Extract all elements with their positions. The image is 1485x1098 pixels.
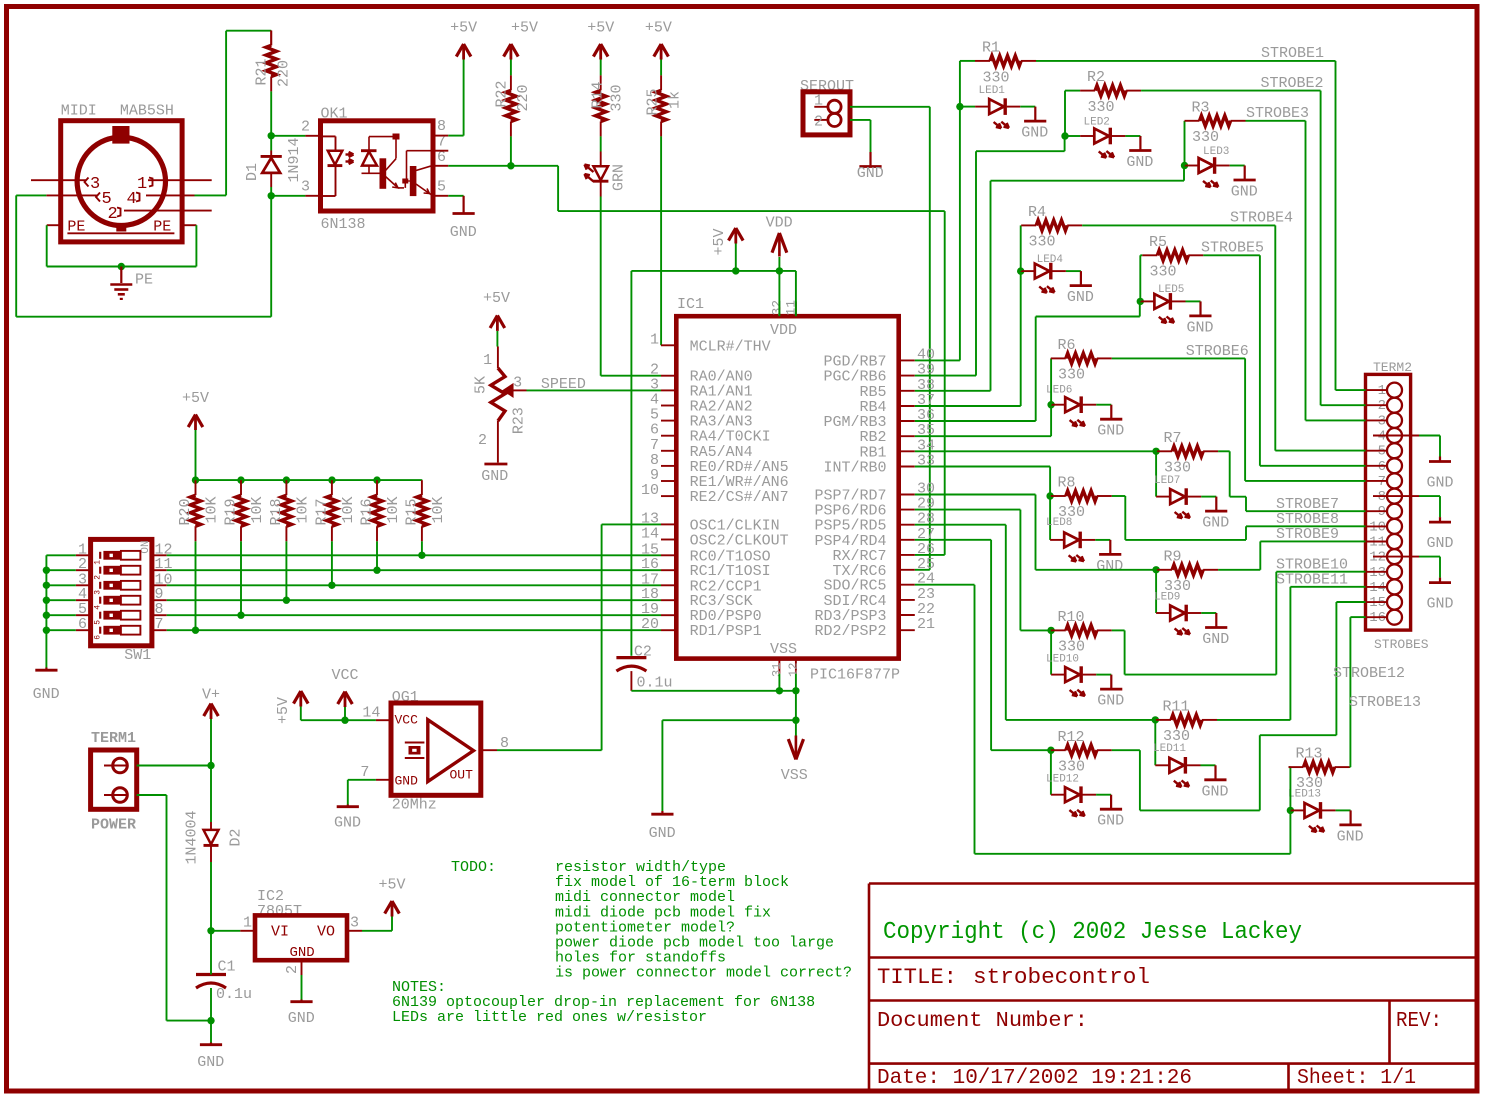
svg-text:330: 330 — [1029, 234, 1056, 251]
svg-text:INT/RB0: INT/RB0 — [823, 460, 886, 477]
svg-text:1: 1 — [650, 331, 659, 348]
svg-text:1: 1 — [137, 175, 147, 194]
svg-text:SW1: SW1 — [124, 647, 151, 664]
svg-text:GND: GND — [857, 165, 884, 182]
svg-text:1N914: 1N914 — [286, 137, 303, 182]
svg-text:3: 3 — [90, 175, 100, 194]
svg-text:MAB5SH: MAB5SH — [120, 103, 174, 120]
svg-text:R23: R23 — [511, 407, 528, 434]
svg-text:ON: ON — [140, 540, 152, 553]
svg-text:330: 330 — [1192, 129, 1219, 146]
svg-text:2: 2 — [478, 432, 487, 449]
svg-text:+5V: +5V — [450, 20, 477, 37]
svg-text:21: 21 — [917, 616, 935, 633]
svg-text:LED3: LED3 — [1203, 146, 1229, 158]
svg-text:R10: R10 — [1058, 609, 1085, 626]
svg-text:330: 330 — [983, 70, 1010, 87]
svg-text:LED6: LED6 — [1046, 385, 1072, 397]
svg-text:OSC2/CLKOUT: OSC2/CLKOUT — [690, 533, 789, 550]
svg-text:330: 330 — [1088, 99, 1115, 116]
svg-text:13: 13 — [1369, 565, 1386, 581]
svg-text:PIC16F877P: PIC16F877P — [810, 667, 900, 684]
svg-text:VDD: VDD — [770, 322, 797, 339]
svg-text:R8: R8 — [1058, 475, 1076, 492]
svg-text:10K: 10K — [340, 496, 357, 523]
svg-text:1k: 1k — [667, 91, 684, 109]
svg-text:330: 330 — [1163, 728, 1190, 745]
svg-text:8: 8 — [1378, 489, 1386, 505]
svg-text:Date: 10/17/2002 19:21:26: Date: 10/17/2002 19:21:26 — [877, 1067, 1192, 1090]
svg-text:LED7: LED7 — [1154, 475, 1180, 487]
svg-text:VO: VO — [317, 924, 335, 941]
svg-text:RD1/PSP1: RD1/PSP1 — [690, 623, 762, 640]
svg-text:R2: R2 — [1087, 69, 1105, 86]
svg-text:VCC: VCC — [331, 667, 358, 684]
svg-text:STROBE2: STROBE2 — [1261, 75, 1324, 92]
svg-text:R1: R1 — [982, 40, 1000, 57]
svg-text:is power connector model corre: is power connector model correct? — [555, 965, 852, 982]
svg-text:330: 330 — [1150, 264, 1177, 281]
svg-text:1: 1 — [243, 915, 252, 932]
svg-text:MIDI: MIDI — [61, 103, 97, 120]
svg-text:MCLR#/THV: MCLR#/THV — [690, 338, 771, 355]
svg-text:TERM1: TERM1 — [91, 730, 136, 747]
svg-text:STROBE12: STROBE12 — [1333, 665, 1405, 682]
svg-text:+5V: +5V — [275, 697, 292, 724]
svg-text:IC1: IC1 — [677, 296, 704, 313]
svg-text:R13: R13 — [1296, 746, 1323, 763]
svg-text:3: 3 — [513, 375, 522, 392]
svg-text:R9: R9 — [1164, 549, 1182, 566]
svg-text:2: 2 — [814, 114, 823, 131]
svg-text:R7: R7 — [1164, 430, 1182, 447]
svg-text:3: 3 — [94, 590, 103, 595]
svg-text:GND: GND — [33, 686, 60, 703]
svg-text:R19: R19 — [223, 498, 240, 525]
svg-text:RE2/CS#/AN7: RE2/CS#/AN7 — [690, 489, 789, 506]
svg-text:STROBE5: STROBE5 — [1201, 240, 1264, 257]
svg-text:330: 330 — [1296, 775, 1323, 792]
svg-text:220: 220 — [276, 60, 293, 87]
svg-text:STROBE11: STROBE11 — [1276, 572, 1348, 589]
svg-text:STROBE13: STROBE13 — [1349, 694, 1421, 711]
svg-text:GND: GND — [1426, 475, 1453, 492]
svg-text:VDD: VDD — [766, 215, 793, 232]
svg-text:REV:: REV: — [1396, 1010, 1442, 1033]
svg-text:R3: R3 — [1192, 100, 1210, 117]
svg-text:D2: D2 — [228, 828, 245, 846]
svg-text:+5V: +5V — [645, 20, 672, 37]
svg-text:10K: 10K — [249, 496, 266, 523]
svg-text:C2: C2 — [634, 644, 652, 661]
svg-text:3: 3 — [350, 915, 359, 932]
svg-text:0.1u: 0.1u — [216, 986, 252, 1003]
svg-text:16: 16 — [1369, 610, 1386, 626]
svg-text:R20: R20 — [177, 498, 194, 525]
svg-text:R18: R18 — [268, 498, 285, 525]
svg-text:10: 10 — [641, 482, 659, 499]
svg-text:+5V: +5V — [587, 20, 614, 37]
svg-text:5K: 5K — [472, 376, 489, 394]
svg-text:5: 5 — [437, 179, 446, 196]
svg-text:2: 2 — [284, 965, 301, 974]
svg-text:GND: GND — [1097, 423, 1124, 440]
svg-text:6N138: 6N138 — [321, 216, 366, 233]
svg-text:14: 14 — [362, 705, 380, 722]
svg-text:R25: R25 — [645, 88, 662, 115]
svg-text:GND: GND — [1126, 154, 1153, 171]
svg-text:7: 7 — [360, 764, 369, 781]
svg-text:6: 6 — [78, 616, 87, 633]
svg-text:R11: R11 — [1163, 699, 1190, 716]
svg-text:VCC: VCC — [395, 713, 419, 728]
svg-text:1: 1 — [814, 93, 823, 110]
svg-text:GND: GND — [1096, 558, 1123, 575]
svg-text:LED5: LED5 — [1158, 284, 1184, 296]
svg-text:10K: 10K — [430, 496, 447, 523]
svg-text:330: 330 — [1058, 367, 1085, 384]
svg-text:Copyright (c) 2002 Jesse Lacke: Copyright (c) 2002 Jesse Lackey — [883, 919, 1302, 946]
svg-text:R16: R16 — [359, 498, 376, 525]
svg-text:RD2/PSP2: RD2/PSP2 — [814, 623, 886, 640]
svg-text:+5V: +5V — [511, 20, 538, 37]
svg-text:GRN: GRN — [611, 164, 628, 191]
svg-text:LED1: LED1 — [979, 85, 1006, 97]
svg-text:330: 330 — [1058, 504, 1085, 521]
svg-text:PE: PE — [135, 272, 153, 289]
svg-text:GND: GND — [395, 774, 419, 789]
svg-text:LED2: LED2 — [1084, 117, 1110, 129]
svg-text:LED4: LED4 — [1037, 254, 1064, 266]
svg-text:GND: GND — [1021, 125, 1048, 142]
svg-text:R5: R5 — [1149, 234, 1167, 251]
svg-text:R4: R4 — [1028, 204, 1046, 221]
svg-text:4: 4 — [94, 605, 103, 610]
svg-text:3: 3 — [1378, 413, 1386, 429]
svg-text:5: 5 — [1378, 444, 1386, 460]
svg-text:32: 32 — [770, 300, 785, 316]
svg-text:POWER: POWER — [91, 817, 136, 834]
svg-text:GND: GND — [1097, 813, 1124, 830]
svg-text:12: 12 — [1369, 550, 1386, 566]
svg-text:D1: D1 — [244, 163, 261, 181]
svg-text:31: 31 — [770, 663, 784, 677]
svg-text:GND: GND — [197, 1054, 224, 1071]
svg-text:STROBE6: STROBE6 — [1186, 343, 1249, 360]
svg-text:GND: GND — [1202, 515, 1229, 532]
svg-text:GND: GND — [1186, 319, 1213, 336]
svg-text:STROBE4: STROBE4 — [1230, 210, 1293, 227]
svg-text:220: 220 — [515, 84, 532, 111]
svg-text:GND: GND — [1097, 693, 1124, 710]
svg-text:V+: V+ — [202, 687, 220, 704]
svg-text:4: 4 — [1378, 429, 1386, 445]
svg-text:GND: GND — [481, 468, 508, 485]
svg-text:Document Number:: Document Number: — [877, 1010, 1088, 1033]
svg-text:12: 12 — [787, 663, 801, 677]
svg-text:GND: GND — [450, 224, 477, 241]
svg-text:GND: GND — [1426, 596, 1453, 613]
svg-text:1N4004: 1N4004 — [184, 810, 201, 864]
svg-text:330: 330 — [1058, 759, 1085, 776]
svg-text:Sheet: 1/1: Sheet: 1/1 — [1297, 1067, 1416, 1090]
svg-text:GND: GND — [1201, 783, 1228, 800]
svg-text:GND: GND — [1067, 289, 1094, 306]
svg-text:10: 10 — [1369, 519, 1386, 535]
svg-text:11: 11 — [1369, 535, 1386, 551]
svg-text:GND: GND — [334, 815, 361, 832]
svg-text:TODO:: TODO: — [451, 859, 496, 876]
svg-text:6: 6 — [94, 635, 103, 640]
svg-text:330: 330 — [1058, 639, 1085, 656]
svg-text:9: 9 — [1378, 504, 1386, 520]
svg-text:10K: 10K — [385, 496, 402, 523]
svg-text:7: 7 — [1378, 474, 1386, 490]
svg-text:GND: GND — [1231, 184, 1258, 201]
svg-text:+5V: +5V — [711, 228, 728, 255]
svg-text:0.1u: 0.1u — [637, 675, 673, 692]
svg-text:VSS: VSS — [770, 641, 797, 658]
svg-text:14: 14 — [641, 526, 659, 543]
svg-text:7: 7 — [155, 616, 164, 633]
svg-text:TITLE:: TITLE: — [877, 965, 957, 990]
svg-text:5: 5 — [94, 620, 103, 625]
svg-text:3: 3 — [301, 179, 310, 196]
svg-text:330: 330 — [609, 84, 626, 111]
svg-text:VI: VI — [271, 924, 289, 941]
svg-text:4: 4 — [127, 190, 137, 209]
svg-text:GND: GND — [649, 825, 676, 842]
svg-text:2: 2 — [108, 205, 118, 224]
svg-text:+5V: +5V — [182, 390, 209, 407]
svg-text:2: 2 — [301, 119, 310, 136]
svg-text:STROBE1: STROBE1 — [1261, 45, 1324, 62]
svg-text:2: 2 — [1378, 398, 1386, 414]
svg-text:1: 1 — [94, 560, 103, 565]
svg-text:R12: R12 — [1058, 729, 1085, 746]
svg-text:VSS: VSS — [781, 767, 808, 784]
svg-text:LEDs are little red ones w/res: LEDs are little red ones w/resistor — [392, 1009, 707, 1026]
svg-text:STROBE3: STROBE3 — [1246, 105, 1309, 122]
svg-text:C1: C1 — [218, 959, 236, 976]
svg-text:R14: R14 — [590, 81, 607, 108]
svg-text:R22: R22 — [494, 80, 511, 107]
svg-text:STROBES: STROBES — [1374, 637, 1429, 652]
svg-text:STROBE9: STROBE9 — [1276, 526, 1339, 543]
svg-text:GND: GND — [290, 945, 315, 961]
svg-text:GND: GND — [1337, 828, 1364, 845]
svg-text:1: 1 — [483, 352, 492, 369]
svg-text:SPEED: SPEED — [541, 376, 586, 393]
svg-text:8: 8 — [437, 118, 446, 135]
svg-text:14: 14 — [1369, 580, 1386, 596]
svg-text:R6: R6 — [1058, 337, 1076, 354]
svg-text:+5V: +5V — [378, 877, 405, 894]
svg-text:15: 15 — [1369, 595, 1386, 611]
svg-text:330: 330 — [1164, 578, 1191, 595]
svg-text:GND: GND — [288, 1010, 315, 1027]
svg-text:GND: GND — [1202, 631, 1229, 648]
svg-text:R15: R15 — [403, 498, 420, 525]
svg-text:20Mhz: 20Mhz — [392, 797, 437, 814]
svg-text:OUT: OUT — [450, 768, 474, 783]
svg-text:2: 2 — [94, 575, 103, 580]
svg-text:R21: R21 — [254, 58, 271, 85]
svg-text:+5V: +5V — [483, 290, 510, 307]
svg-text:R17: R17 — [313, 498, 330, 525]
svg-text:330: 330 — [1164, 460, 1191, 477]
svg-text:6: 6 — [1378, 459, 1386, 475]
svg-text:10K: 10K — [204, 496, 221, 523]
svg-text:GND: GND — [1426, 535, 1453, 552]
svg-text:strobecontrol: strobecontrol — [973, 965, 1150, 990]
svg-text:1: 1 — [1378, 383, 1386, 399]
svg-text:10K: 10K — [294, 496, 311, 523]
